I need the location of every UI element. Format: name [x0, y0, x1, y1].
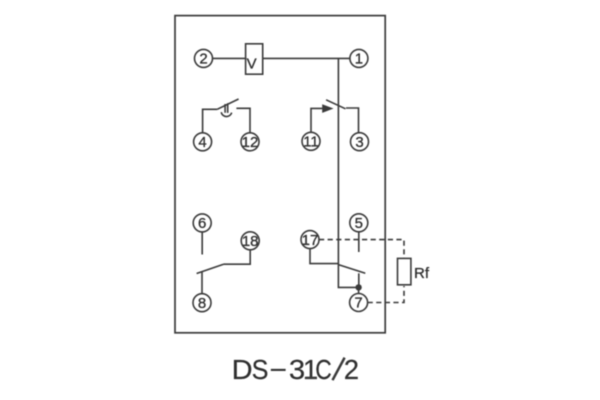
- svg-text:1: 1: [355, 51, 363, 68]
- terminal 18: [241, 232, 259, 250]
- svg-text:4: 4: [198, 134, 206, 151]
- svg-text:3: 3: [355, 134, 363, 151]
- contact blade 4-12: [217, 99, 238, 109]
- contact blade 11-3: [326, 100, 345, 109]
- wire from 12 up: [236, 108, 250, 133]
- stub from 5 down: [358, 232, 360, 252]
- contact blade 18-8: [197, 264, 224, 273]
- terminal 7: [350, 294, 368, 312]
- svg-text:−: −: [269, 354, 287, 385]
- terminal 8: [193, 294, 211, 312]
- terminal 11: [302, 132, 320, 150]
- wire from 18 down: [224, 250, 251, 264]
- wire from 4 up: [203, 109, 218, 133]
- svg-text:Rf: Rf: [414, 265, 430, 282]
- junction node: [355, 284, 361, 290]
- relay case outline: [175, 16, 385, 333]
- terminal 1: [350, 49, 368, 67]
- wire from 11 up with arrow: [311, 108, 322, 132]
- arrow head: [322, 104, 333, 113]
- svg-text:8: 8: [198, 295, 206, 312]
- contact blade 17-7: [338, 265, 365, 274]
- svg-text:18: 18: [242, 233, 259, 250]
- wire from node on 1-wire down to bottom contact: [338, 58, 358, 287]
- terminal 4: [194, 133, 212, 151]
- svg-text:C: C: [315, 354, 332, 385]
- wire node to 7: [358, 287, 360, 293]
- wire from blade to 8: [201, 272, 203, 294]
- svg-text:S: S: [252, 354, 269, 385]
- svg-text:6: 6: [198, 215, 206, 232]
- svg-text:2: 2: [199, 51, 207, 68]
- stub from 6 down: [201, 232, 203, 255]
- dashed wire 7 to resistor: [368, 286, 404, 303]
- dashed wire 17 to resistor: [319, 240, 404, 259]
- svg-text:V: V: [247, 55, 257, 72]
- wire coil to 1: [262, 57, 350, 59]
- resistor Rf: [398, 258, 430, 284]
- wire 2 to coil: [213, 57, 246, 59]
- passing-contact symbol: [221, 103, 232, 116]
- svg-text:5: 5: [355, 215, 363, 232]
- wire from 3 up: [346, 108, 359, 133]
- svg-text:7: 7: [354, 295, 362, 312]
- wire from 17 down: [310, 249, 338, 264]
- title DS-31C/2: [232, 354, 359, 385]
- coil V: [246, 44, 263, 74]
- terminal 12: [241, 133, 259, 151]
- svg-text:12: 12: [242, 134, 259, 151]
- terminal 17: [301, 231, 319, 249]
- terminal 2: [195, 49, 213, 67]
- svg-text:11: 11: [303, 134, 319, 151]
- terminal 5: [350, 214, 368, 232]
- terminal 3: [351, 133, 369, 151]
- terminal 6: [193, 214, 211, 232]
- svg-text:17: 17: [302, 232, 319, 249]
- svg-text:D: D: [232, 354, 253, 385]
- fixed contact stub to node: [358, 273, 360, 287]
- svg-text:2: 2: [344, 354, 359, 385]
